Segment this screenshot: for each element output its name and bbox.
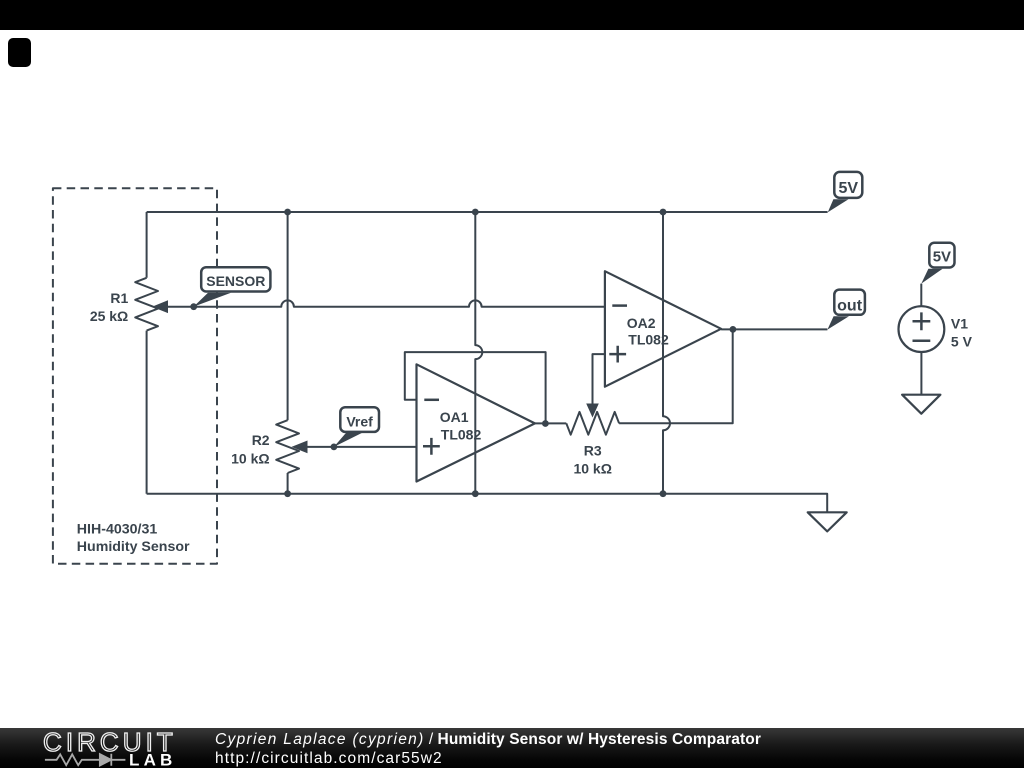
wire V1 bottom lead	[920, 352, 922, 395]
op-amp OA1 triangle	[417, 364, 535, 481]
wire V1 top lead	[920, 284, 922, 307]
balloon Vref	[334, 433, 362, 447]
wire ground rail bottom	[147, 494, 828, 513]
wire R3 right lead up to output node	[619, 329, 733, 423]
wire Vref net (R2 wiper to OA1 plus)	[306, 446, 417, 448]
wire SENSOR net (R1 wiper to OA2 minus) with hops	[166, 300, 605, 306]
OA1 minus symbol	[424, 399, 439, 402]
node OA1 power top junction	[472, 209, 479, 216]
wire R1 top lead	[146, 212, 148, 278]
resistor R1 (potentiometer 25k)	[135, 278, 158, 331]
wire OA2 plus stub to R3 wiper	[593, 354, 605, 405]
node OA1 output junction	[542, 420, 549, 427]
R2 wiper arrow	[292, 441, 308, 454]
resistor R2 (potentiometer 10k)	[276, 420, 299, 473]
ground symbol main	[808, 512, 847, 531]
footer title text	[215, 731, 761, 749]
wire OA1 output	[535, 422, 566, 424]
OA2 plus symbol	[609, 346, 626, 363]
op-amp OA2 triangle	[605, 271, 721, 387]
wire OA2 output to out flag	[721, 328, 827, 330]
footer url text	[215, 750, 443, 768]
wire OA2 power vertical with hop	[663, 212, 670, 494]
node OA2 power top junction	[660, 209, 667, 216]
wire R1 bottom lead	[146, 331, 148, 494]
V1 plus symbol	[913, 312, 931, 330]
flag 5V (top rail)	[828, 199, 849, 212]
wire OA1 power vertical with hop	[475, 212, 482, 494]
wire top 5V rail	[147, 211, 828, 213]
node SENSOR junction	[190, 303, 197, 310]
bottom footer bar	[0, 728, 1024, 768]
wire OA1 feedback loop	[405, 352, 546, 424]
node R2 top junction	[284, 209, 291, 216]
flag out	[827, 316, 849, 329]
R1 wiper arrow	[152, 300, 168, 313]
small black toolbar box	[8, 38, 31, 67]
node OA2 power bottom junction	[660, 490, 667, 497]
R3 wiper arrow	[586, 404, 599, 418]
voltage source V1	[921, 269, 942, 284]
wire R2 bottom lead	[287, 473, 289, 494]
balloon SENSOR	[194, 293, 231, 307]
node output junction	[730, 326, 737, 333]
node OA1 power bottom junction	[472, 490, 479, 497]
svg-text:LAB: LAB	[129, 751, 177, 768]
dashed enclosure HIH-4030/31	[53, 188, 217, 563]
V1 minus symbol	[913, 340, 931, 343]
OA2 minus symbol	[612, 304, 627, 307]
top transparent-black navbar strip	[0, 0, 1024, 30]
node R2 bottom junction	[284, 490, 291, 497]
CircuitLab logo doodle	[45, 754, 126, 766]
OA1 plus symbol	[423, 438, 440, 455]
node Vref junction	[331, 444, 338, 451]
V1 circle	[899, 306, 945, 352]
wire R2 top lead from 5V rail	[287, 212, 289, 420]
ground symbol V1	[902, 395, 940, 414]
resistor R3 (potentiometer 10k, horizontal)	[566, 412, 619, 435]
